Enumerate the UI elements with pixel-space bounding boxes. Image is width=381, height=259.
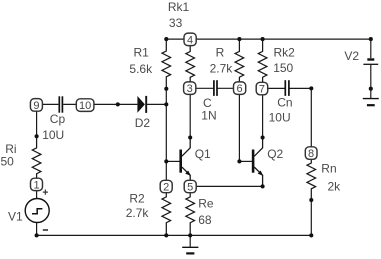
node 4	[184, 33, 196, 46]
resistor Re	[186, 187, 195, 235]
junction Q1 base	[164, 159, 168, 163]
resistor R	[235, 39, 244, 89]
svg-text:2.7k: 2.7k	[210, 61, 234, 75]
svg-text:3: 3	[187, 83, 193, 95]
resistor Rn	[307, 153, 316, 199]
wire R1 bottom down to node 2	[165, 89, 167, 187]
junction Q1 collector	[188, 135, 192, 139]
svg-text:2.7k: 2.7k	[126, 206, 150, 220]
wire node 9 to Cp left plate	[37, 103, 59, 105]
svg-text:5: 5	[187, 182, 193, 194]
transistor Q1	[181, 138, 191, 187]
svg-text:4: 4	[187, 34, 193, 46]
ground at emitter bus	[182, 247, 198, 253]
wire Rn bottom to bottom bus	[310, 200, 312, 235]
wire node 7 to Cn left plate	[263, 87, 286, 89]
junction V1 minus on bottom bus	[35, 233, 39, 237]
junction Rn column on bottom bus	[309, 233, 313, 237]
node 5	[184, 180, 196, 193]
svg-text:6: 6	[237, 83, 243, 95]
svg-text:9: 9	[33, 100, 39, 112]
svg-text:R1: R1	[134, 46, 150, 60]
junction Cn right plate wire	[309, 86, 313, 90]
junction R1 bottom pin	[164, 87, 168, 91]
wire top supply bus from R1 to V2	[166, 38, 370, 40]
junction Q2 collector	[261, 135, 265, 139]
capacitor Cp	[59, 96, 62, 112]
resistor Rk2	[258, 39, 267, 89]
resistor Ri	[32, 136, 41, 185]
junction V2 bottom to ground	[369, 87, 373, 91]
junction R1 top on supply bus	[164, 37, 168, 41]
junction Q2 emitter	[261, 184, 265, 188]
wire node 6 down to Q2 base junction	[238, 88, 240, 161]
svg-text:68: 68	[198, 213, 212, 227]
junction Rn bottom pin	[309, 198, 313, 202]
wire D2 cathode to R1 column	[147, 103, 166, 105]
junction R2 bottom on bottom bus	[164, 233, 168, 237]
wire bottom ground bus	[37, 234, 312, 236]
minus polarity mark	[43, 229, 48, 231]
node 1	[31, 178, 43, 191]
svg-text:50: 50	[1, 155, 15, 169]
svg-text:33: 33	[169, 16, 183, 30]
svg-text:Q1: Q1	[195, 147, 211, 161]
svg-text:Cp: Cp	[50, 112, 66, 126]
step waveform symbol	[32, 209, 42, 214]
wire V2 bottom stub	[370, 65, 372, 89]
junction R top on supply bus	[237, 37, 241, 41]
svg-text:Q2: Q2	[267, 147, 283, 161]
node 6	[234, 82, 246, 95]
junction ground tap on bottom bus	[188, 233, 192, 237]
svg-text:5.6k: 5.6k	[129, 62, 153, 76]
plus polarity mark	[43, 190, 48, 195]
svg-text:V2: V2	[344, 49, 359, 63]
svg-text:150: 150	[273, 61, 293, 75]
svg-text:D2: D2	[135, 116, 151, 130]
junction Rk2 top on supply bus	[261, 37, 265, 41]
wire Q2 base stub	[239, 160, 252, 162]
svg-text:R2: R2	[129, 192, 145, 206]
wire V2 top stub	[370, 39, 372, 58]
wire Cn junction down to node 8	[310, 88, 312, 153]
capacitor Cn	[285, 80, 289, 96]
node 9	[30, 99, 42, 112]
wire node 7 down to Q2 collector	[262, 88, 264, 137]
svg-text:10U: 10U	[42, 128, 64, 142]
junction D2 anode wire	[116, 102, 120, 106]
junction Q2 base	[237, 159, 241, 163]
capacitor C	[214, 80, 217, 96]
svg-text:V1: V1	[8, 210, 23, 224]
node 7	[256, 82, 268, 95]
junction V2 top on supply bus	[369, 37, 373, 41]
node 8	[305, 147, 317, 160]
svg-text:2k: 2k	[328, 180, 342, 194]
ground at V2	[363, 99, 379, 106]
resistor Rk1	[186, 39, 195, 89]
svg-text:10: 10	[79, 100, 91, 112]
svg-text:R: R	[216, 46, 225, 60]
wire node 3 down to Q1 collector	[189, 88, 191, 137]
transistor Q2	[253, 138, 263, 187]
wire node 1 to V1 plus terminal	[36, 184, 38, 198]
source V1	[25, 190, 49, 231]
svg-text:Rk2: Rk2	[274, 46, 296, 60]
wire bottom ground stub	[189, 235, 191, 246]
wire Cp right plate through node 10 to D2 anode	[63, 103, 137, 105]
junction Ri top pin	[35, 134, 39, 138]
wire node 3 to C left plate	[190, 87, 214, 89]
node 3	[184, 82, 196, 95]
svg-text:Rk1: Rk1	[168, 0, 190, 14]
svg-text:Rn: Rn	[321, 162, 336, 176]
resistor R1	[162, 39, 171, 89]
battery V2	[363, 60, 378, 65]
svg-text:8: 8	[308, 148, 314, 160]
svg-text:1N: 1N	[201, 109, 216, 123]
wire Cn right plate to Rn column	[289, 87, 311, 89]
svg-text:1: 1	[33, 180, 39, 192]
svg-text:7: 7	[259, 84, 265, 96]
wire V1 minus terminal to bottom bus	[36, 223, 38, 236]
diode D2	[137, 96, 146, 113]
svg-text:2: 2	[163, 182, 169, 194]
wire C right plate to node 6	[217, 87, 239, 89]
svg-text:Cn: Cn	[277, 95, 292, 109]
svg-text:Re: Re	[198, 196, 214, 210]
wire Q1 base stub	[166, 160, 179, 162]
node 10	[76, 99, 94, 112]
wire node 5 to Q2 emitter	[190, 185, 262, 187]
junction D2 cathode at R1 column	[164, 102, 168, 106]
svg-text:10U: 10U	[269, 111, 291, 125]
node 2	[160, 180, 172, 193]
wire node 9 down to Ri top	[36, 104, 38, 136]
wire V2 ground stub	[370, 89, 372, 99]
resistor R2	[162, 187, 171, 235]
